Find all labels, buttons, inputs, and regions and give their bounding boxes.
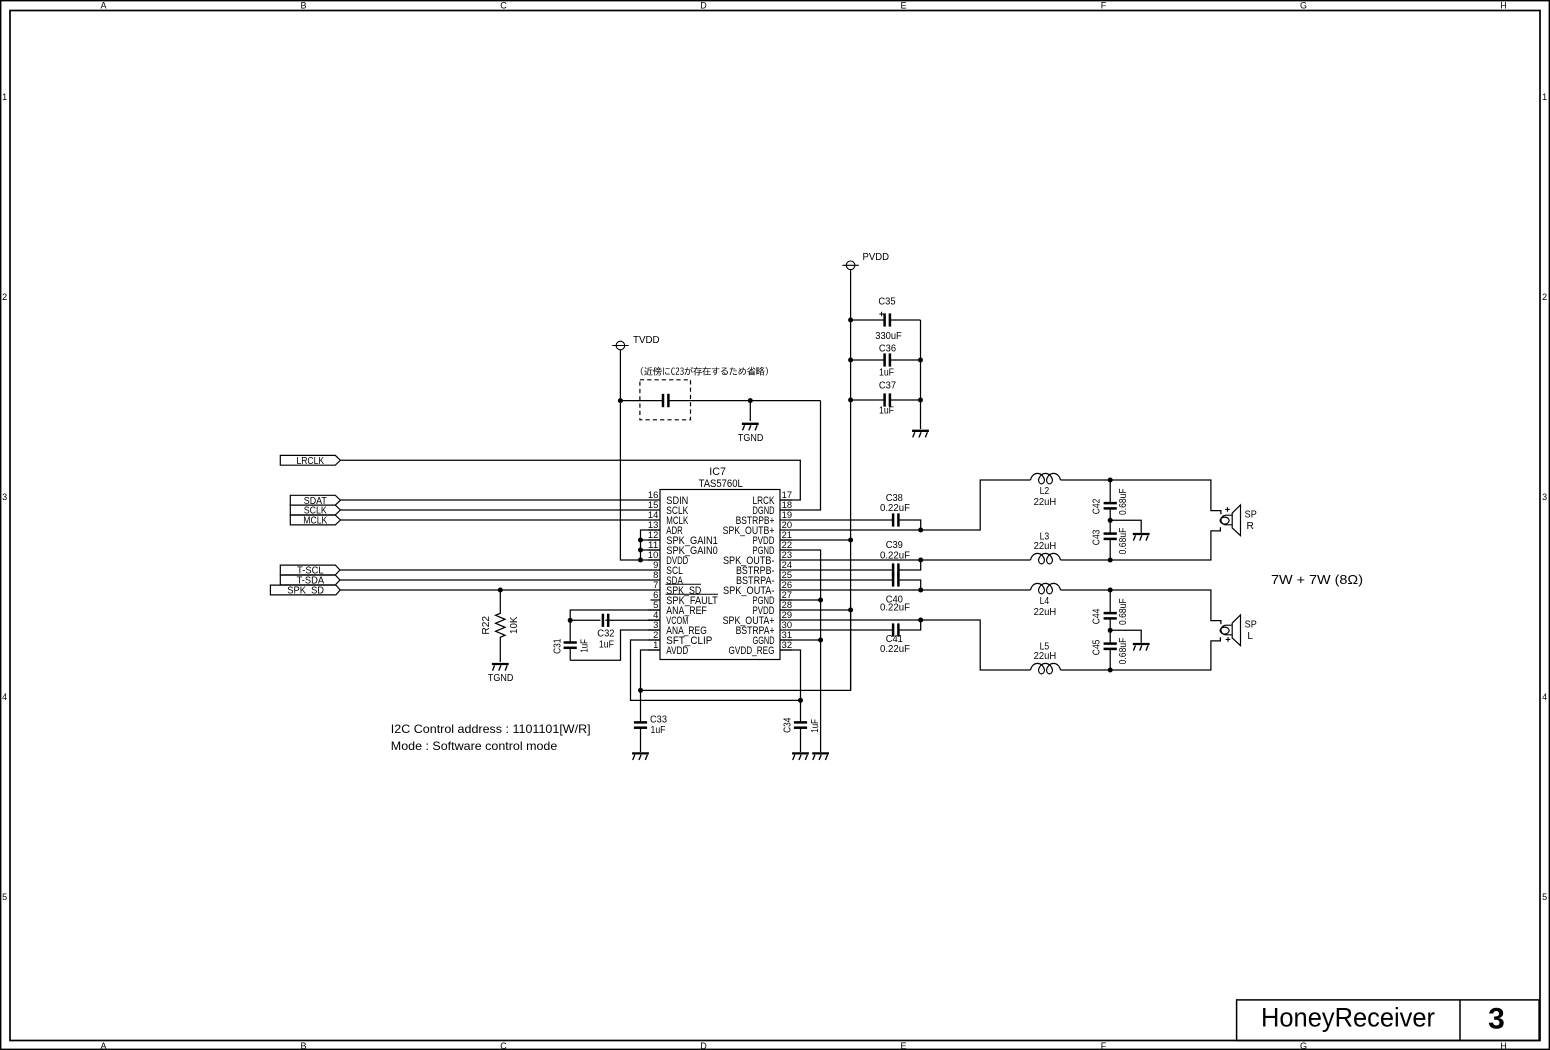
ground under C34 [792,752,809,754]
wire ADR-SPK_GAIN1-SPK_GAIN0-DVDD tie [641,530,661,560]
svg-text:1uF: 1uF [599,639,614,650]
power symbol PVDD [842,252,889,270]
IC7 pin 32 (GVDD_REG) [729,640,793,657]
svg-text:TGND: TGND [738,433,764,444]
wire SPK_OUTB- pin23 [792,559,1031,561]
border column letters bottom [100,1041,1506,1050]
wire PVDD rail [850,270,852,691]
svg-text:9: 9 [653,560,658,570]
wire C31 bottom to ANA_REG pin3 [570,630,660,660]
svg-text:10: 10 [648,550,658,560]
IC7 pin 12 (SPK_GAIN1) [648,530,718,547]
IC7 pin 1 (AVDD) [648,640,689,657]
IC7 pin 15 (SCLK) [648,500,688,517]
svg-text:C42: C42 [1092,498,1103,514]
svg-text:15: 15 [648,500,658,510]
svg-text:TGND: TGND [488,673,514,684]
svg-text:19: 19 [782,510,792,520]
svg-text:20: 20 [782,520,792,530]
node tie pin10 DVDD [638,558,643,563]
svg-text:22uH: 22uH [1034,497,1057,508]
ground B mid [1133,533,1150,535]
svg-text:4: 4 [653,610,658,620]
node right rail C36 [918,358,923,363]
capacitor C41 0.22uF (BSTRPA+) [792,620,921,655]
svg-text:23: 23 [782,550,792,560]
svg-text:GVDD_REG: GVDD_REG [729,645,775,657]
ground under C33 [632,752,649,754]
wire pin27 PGND stub [780,599,821,601]
svg-text:I2C Control address : 1101101[: I2C Control address : 1101101[W/R] [391,722,591,736]
capacitor C42 0.68uF [1092,480,1130,520]
svg-text:G: G [1300,1041,1307,1050]
svg-text:1uF: 1uF [810,719,821,733]
inductor L2 22uH [1031,473,1061,508]
svg-text:F: F [1101,1,1107,11]
IC7 pin 23 (SPK_OUTB-) [723,550,792,567]
node TVDD / C23 tee [618,398,623,403]
svg-text:5: 5 [1542,892,1547,902]
node PVDD C37 tee [848,398,853,403]
wire MCLK to pin14 [340,519,648,521]
svg-text:HoneyReceiver: HoneyReceiver [1261,1003,1435,1033]
net flag T-SDA [280,575,340,587]
svg-text:SP: SP [1245,509,1257,520]
svg-text:C35: C35 [878,297,896,308]
net flag MCLK [290,515,340,527]
capacitor C39 0.22uF (BSTRPB-) [792,540,921,576]
svg-text:8: 8 [653,570,658,580]
svg-text:D: D [700,1041,707,1050]
svg-text:1: 1 [653,640,658,650]
ground under PGND rail [812,752,829,754]
capacitor C38 0.22uF (BSTRPB+) [792,493,921,530]
svg-text:IC7: IC7 [709,466,726,478]
wire T-SDA to pin8 [340,579,648,581]
net flag LRCLK [280,455,340,467]
wire SFT_CLIP pin2 to GVDD node [631,640,801,700]
svg-text:0.22uF: 0.22uF [880,503,910,514]
title block [1237,1000,1540,1041]
capacitor C31 1uF [552,620,590,660]
svg-text:4: 4 [2,692,7,702]
IC7 pin 6 (SPK_FAULT) [651,590,719,607]
svg-text:7W + 7W (8Ω): 7W + 7W (8Ω) [1271,572,1363,587]
wire B mid to ground [1110,520,1141,532]
wire pin31 GGND stub [780,639,821,641]
svg-text:6: 6 [653,590,658,600]
capacitor C44 0.68uF [1092,590,1130,630]
IC7 pin 8 (SDA) [648,570,683,587]
svg-text:0.22uF: 0.22uF [880,603,910,614]
node PVDD C35 tee [848,318,853,323]
svg-text:1uF: 1uF [651,725,666,736]
svg-text:12: 12 [648,530,658,540]
svg-text:0.68uF: 0.68uF [1118,488,1129,515]
IC7 pin 9 (SCL) [648,560,683,577]
IC7 pin 20 (SPK_OUTB+) [723,520,793,537]
node A- / C44 [1108,588,1113,593]
capacitor C23 (omitted, dashed) [640,380,691,420]
wire SPK_OUTB+ pin20 [792,480,1031,530]
svg-text:H: H [1500,1041,1507,1050]
node PVDD pin21 [848,538,853,543]
svg-text:PVDD: PVDD [863,252,890,263]
wire A mid to ground [1110,630,1141,642]
IC7 pin 17 (LRCK) [753,490,793,507]
svg-text:27: 27 [782,590,792,600]
svg-text:C45: C45 [1092,639,1103,655]
svg-text:5: 5 [2,892,7,902]
svg-text:G: G [1300,1,1307,11]
node GVDD / SFT_CLIP junction [798,698,803,703]
node C40 to SPK_OUTA- [918,588,923,593]
IC7 pin 7 (SPK_SD) [648,580,702,597]
resistor R22 10K [481,590,520,662]
IC7 pin 28 (PVDD) [753,600,793,617]
IC7 pin 11 (SPK_GAIN0) [648,540,718,557]
IC7 pin 13 (ADR) [648,520,683,537]
svg-text:C37: C37 [879,381,897,392]
svg-text:31: 31 [782,630,792,640]
speaker SP R [1220,505,1257,536]
svg-text:16: 16 [648,490,658,500]
note: C23 exists nearby so omitted (Japanese) [641,367,768,376]
IC7 pin 3 (ANA_REG) [648,620,707,637]
svg-text:C32: C32 [597,628,615,639]
IC7 pin 22 (PGND) [753,540,793,557]
IC7 pin 25 (BSTRPA-) [736,570,792,587]
node B mid / ground stub [1108,518,1113,523]
svg-text:SP: SP [1245,619,1257,630]
wire SDAT to pin16 [340,499,648,501]
IC7 pin 27 (PGND) [753,590,793,607]
svg-text:C34: C34 [783,717,794,733]
wire PGND rail pin22 [780,550,821,752]
IC7 pin 19 (BSTRPB+) [736,510,793,527]
svg-text:5: 5 [653,600,658,610]
svg-text:22uH: 22uH [1034,607,1057,618]
ground TGND under R22 [488,664,514,684]
capacitor C33 1uF [634,690,667,752]
svg-text:TVDD: TVDD [633,335,660,346]
node C39 to SPK_OUTB- [918,558,923,563]
IC7 pin 2 (SFT_CLIP) [648,630,712,647]
inductor L3 22uH [1031,531,1061,564]
svg-text:0.68uF: 0.68uF [1118,638,1129,665]
svg-text:C44: C44 [1092,608,1103,624]
power symbol TVDD [612,335,659,350]
svg-text:LRCLK: LRCLK [296,456,324,467]
node TGND stub tee [748,398,753,403]
svg-text:7: 7 [653,580,658,590]
svg-text:10K: 10K [509,616,520,634]
svg-text:1: 1 [2,92,7,102]
svg-text:25: 25 [782,570,792,580]
svg-text:D: D [700,1,707,11]
svg-text:11: 11 [648,540,658,550]
svg-text:E: E [900,1,906,11]
capacitor C37 1uF [851,381,921,417]
svg-text:28: 28 [782,600,792,610]
svg-text:18: 18 [782,500,792,510]
svg-text:L: L [1247,631,1253,642]
wire T-SCL to pin9 [340,569,648,571]
wire SCLK to pin15 [340,509,648,511]
svg-text:4: 4 [1542,692,1547,702]
inductor L5 22uH [1031,641,1061,674]
border column letters top [100,1,1506,11]
svg-text:C: C [500,1041,507,1050]
svg-text:330uF: 330uF [875,331,902,342]
wire L5 to speaker L + [1061,637,1221,670]
svg-text:C36: C36 [879,343,897,354]
node VCOM/ANA_REF junction [568,618,573,623]
svg-text:3: 3 [653,620,658,630]
node A mid / ground stub [1108,628,1113,633]
wire TGND stub [749,401,751,421]
capacitor C45 0.68uF [1092,630,1130,670]
svg-text:E: E [900,1041,906,1050]
net flag T-SCL [280,565,340,577]
wire pin28 PVDD stub [780,609,851,611]
IC7 pin 18 (DGND) [753,500,793,517]
speaker SP L [1220,615,1257,646]
svg-text:H: H [1500,1,1507,11]
node SPK_SD / R22 junction [498,588,503,593]
ground under PVDD cap rail [912,430,929,432]
wire SPK_OUTA- pin26 [792,589,1031,591]
node tie pin12 [638,538,643,543]
wire PVDD caps right rail [920,320,922,429]
svg-text:R22: R22 [481,616,492,635]
IC7 pin 21 (PVDD) [753,530,793,547]
capacitor C36 1uF [851,343,921,378]
IC7 pin 14 (MCLK) [648,510,688,527]
node PVDD pin28 [848,608,853,613]
IC7 pin 5 (ANA_REF) [648,600,707,617]
svg-text:2: 2 [2,292,7,302]
node tie pin11 [638,548,643,553]
svg-text:Mode : Software control mode: Mode : Software control mode [391,739,558,753]
IC7 pin 29 (SPK_OUTA+) [723,610,793,627]
node C41 to SPK_OUTA+ [918,618,923,623]
svg-text:A: A [100,1,106,11]
wire ANA_REF pin5 [570,610,660,620]
svg-text:21: 21 [782,530,792,540]
IC7 pin 31 (GGND) [753,630,793,647]
svg-text:1uF: 1uF [579,639,590,653]
wire AVDD to PVDD rail [641,610,851,690]
capacitor C35 330uF (polarized) [851,297,921,342]
wire TVDD rail down to DVDD tie [620,350,640,560]
svg-text:24: 24 [782,560,792,570]
net flag SDAT [290,495,340,507]
svg-text:22: 22 [782,540,792,550]
svg-text:30: 30 [782,620,792,630]
svg-text:3: 3 [2,492,7,502]
svg-text:26: 26 [782,580,792,590]
wire L4 to speaker L top [1061,590,1221,624]
net flag SCLK [290,505,340,517]
node C38 to SPK_OUTB+ [918,528,923,533]
wire L3 to speaker R - [1061,527,1221,560]
border row numbers left [2,92,7,902]
svg-text:22uH: 22uH [1034,651,1057,662]
IC7 pin 10 (DVDD) [648,550,689,567]
svg-text:C43: C43 [1092,529,1103,545]
svg-text:22uH: 22uH [1034,541,1057,552]
inductor L4 22uH [1031,583,1061,618]
net flag SPK_SD [270,585,340,597]
ground A mid [1133,643,1150,645]
svg-text:13: 13 [648,520,658,530]
IC7 pin 16 (SDIN) [648,490,688,507]
wire AVDD pin1 down [641,650,661,690]
svg-text:0.22uF: 0.22uF [880,644,910,655]
IC7 pin 24 (BSTRPB-) [736,560,792,577]
svg-text:29: 29 [782,610,792,620]
svg-text:B: B [300,1041,306,1050]
op-amp/amplifier IC U7 (IC7 TAS5760L) body [660,466,780,659]
wire GVDD_REG pin32 down [780,650,801,700]
node PGND pin27 [818,598,823,603]
node B- / C43 [1108,558,1113,563]
svg-text:0.68uF: 0.68uF [1118,528,1129,555]
node AVDD / C33 junction [638,688,643,693]
border row numbers right [1542,92,1547,902]
node PGND pin31 [818,638,823,643]
svg-text:MCLK: MCLK [303,516,327,527]
svg-text:1uF: 1uF [879,406,894,417]
wire SPK_SD to pin7 [340,589,648,591]
svg-text:R: R [1247,521,1254,532]
svg-text:SPK_SD: SPK_SD [287,586,324,597]
IC7 pin 4 (VCOM) [648,610,688,627]
svg-text:2: 2 [653,630,658,640]
svg-text:17: 17 [782,490,792,500]
svg-text:C31: C31 [552,638,563,654]
wire L2 to speaker R + [1061,480,1221,514]
wire pin21 PVDD stub [780,539,851,541]
node right rail C37 [918,398,923,403]
capacitor C40 0.22uF (BSTRPA-) [792,573,921,613]
wire SPK_OUTA+ pin29 [792,620,1031,670]
svg-text:TAS5760L: TAS5760L [699,478,743,490]
svg-text:1uF: 1uF [879,367,894,378]
svg-text:14: 14 [648,510,658,520]
capacitor C32 1uF [570,614,660,651]
svg-text:L2: L2 [1040,486,1050,497]
svg-text:B: B [300,1,306,11]
capacitor C43 0.68uF [1092,520,1130,560]
svg-text:32: 32 [782,640,792,650]
svg-text:A: A [100,1041,106,1050]
svg-text:C33: C33 [650,715,667,726]
svg-text:0.68uF: 0.68uF [1118,598,1129,625]
wire LRCLK to pin17 [340,460,800,500]
wire DGND pin18 riser [780,401,821,510]
svg-text:3: 3 [1542,492,1547,502]
svg-text:L4: L4 [1040,596,1050,607]
IC7 pin 26 (SPK_OUTA-) [723,580,792,597]
node PVDD C36 tee [848,358,853,363]
svg-text:F: F [1101,1041,1107,1050]
ground TGND under C23 wire [738,424,764,444]
capacitor C34 1uF [783,700,821,752]
svg-text:AVDD: AVDD [666,645,688,657]
wire C23 horizontal TVDD to DGND [620,400,663,402]
IC7 pin 30 (BSTRPA+) [736,620,793,637]
svg-text:3: 3 [1488,1003,1505,1036]
node A+ / C45 [1108,668,1113,673]
svg-text:2: 2 [1542,292,1547,302]
node B+ / C42 [1108,478,1113,483]
svg-text:1: 1 [1542,92,1547,102]
svg-text:C: C [500,1,507,11]
